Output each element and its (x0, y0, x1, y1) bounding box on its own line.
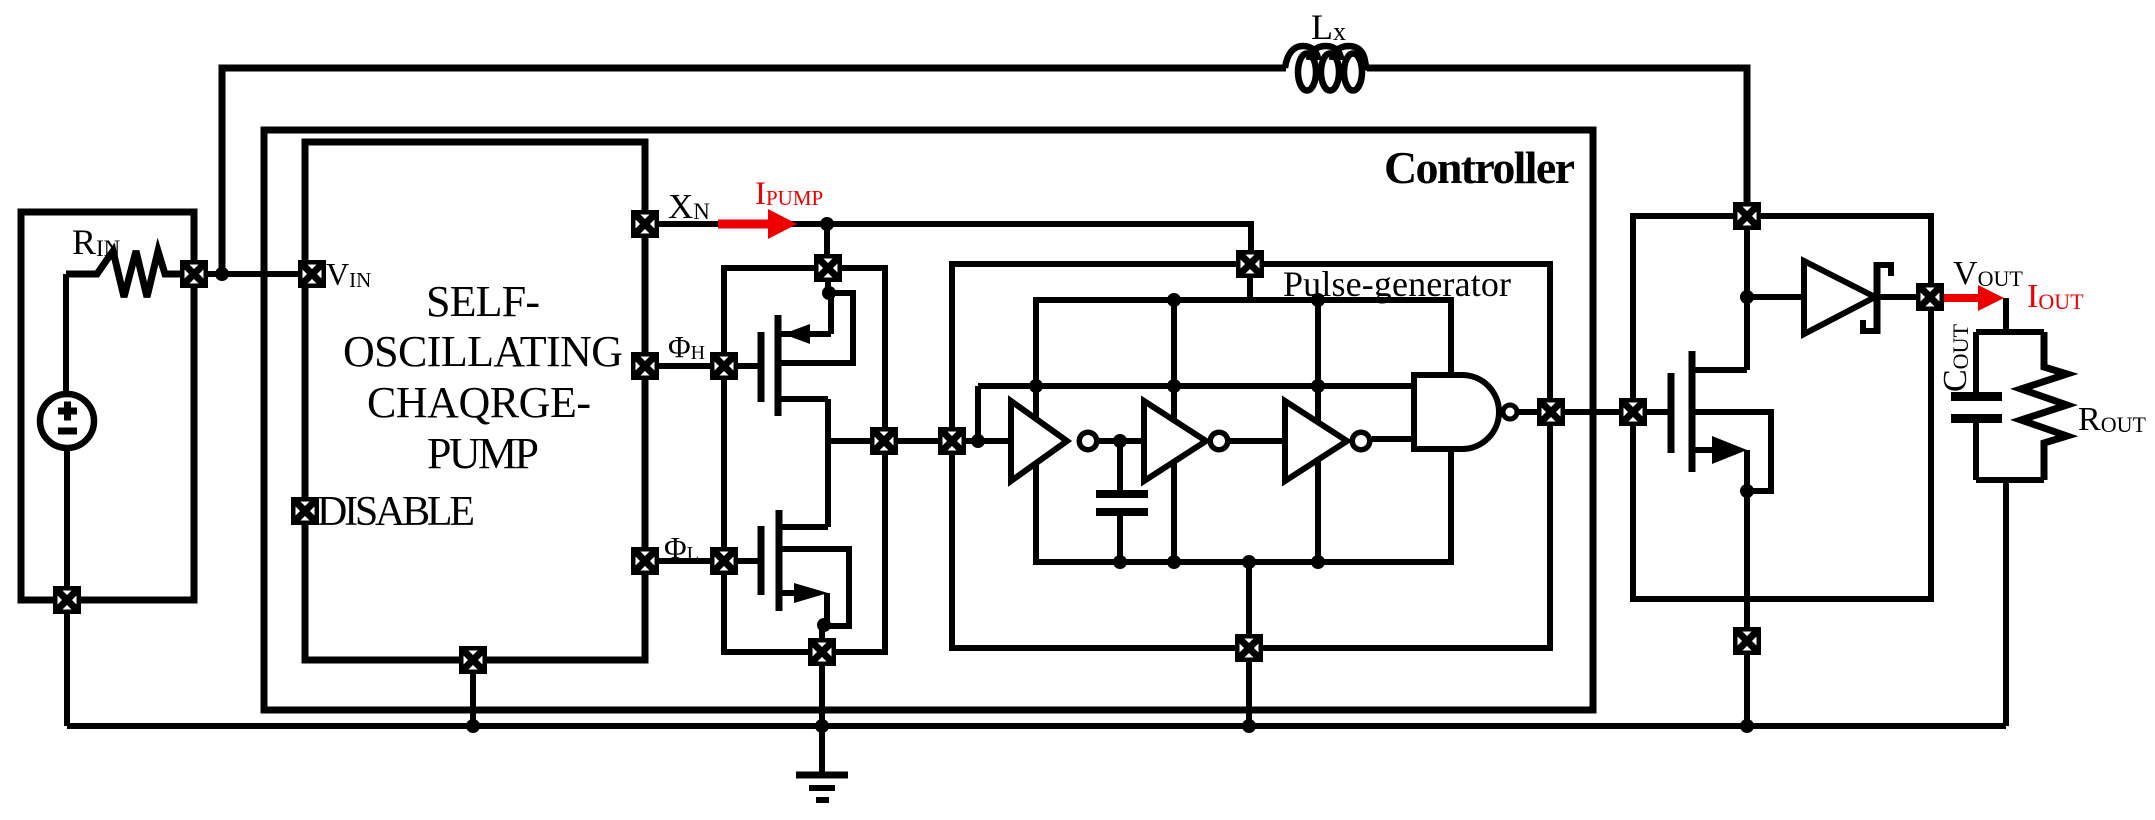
pad pulse gnd (1235, 634, 1263, 662)
voltage source V1 (40, 394, 94, 448)
inverter U3 (1285, 401, 1347, 481)
pad phiH a (631, 352, 659, 380)
wire: inverter chain (1099, 439, 1414, 441)
inductor Lx (1285, 46, 1369, 91)
pad driver out (870, 427, 898, 455)
pad Xn (631, 210, 659, 238)
svg-text:OSCILLATING: OSCILLATING (343, 327, 623, 376)
pulse-generator inner rail box (1036, 300, 1451, 562)
wire: phiH (645, 363, 724, 369)
pad Vin (298, 260, 326, 288)
pad driver gnd (808, 638, 836, 666)
pad source gnd (53, 586, 81, 614)
wire: top loop (222, 68, 1747, 274)
pad Vout (1916, 283, 1944, 311)
controller box (264, 130, 1593, 710)
svg-text:Controller: Controller (1384, 142, 1575, 193)
resistor Rin (66, 251, 181, 297)
wire: nand output (1519, 409, 1633, 415)
diode D1 (schottky) (1804, 261, 1875, 334)
wire: driver output to pulse input (828, 438, 952, 444)
wire: pulse bottom feed (1246, 562, 1252, 726)
pad pump gnd (459, 646, 487, 674)
svg-text:Pulse-generator: Pulse-generator (1283, 264, 1511, 304)
nand gate U4 (1414, 375, 1499, 449)
svg-text:PUMP: PUMP (427, 429, 539, 478)
wire: inner verticals (1174, 300, 1318, 562)
pad DISABLE (291, 497, 319, 525)
red arrow Iout (1944, 285, 2004, 311)
svg-text:DISABLE: DISABLE (317, 489, 475, 535)
wire: load bottom feed (2003, 480, 2009, 726)
capacitor Cout (1951, 332, 2002, 480)
gate-driver box (724, 268, 885, 652)
ground (796, 775, 848, 800)
source box (21, 212, 194, 600)
output-stage box (1633, 216, 1931, 599)
svg-text:SELF-: SELF- (426, 277, 540, 326)
wire: Vin row (194, 271, 312, 277)
resistor Rout (2021, 332, 2067, 480)
transistor M1 (driver PMOS) (724, 268, 853, 441)
pad phiL a (631, 547, 659, 575)
red arrow Ipump (718, 209, 797, 239)
inverter U2 (1144, 401, 1206, 481)
pad phiH b (710, 352, 738, 380)
pad driver top (814, 254, 842, 282)
wire: pump bottom to rail (470, 660, 476, 726)
wire: stage ground (1744, 491, 1750, 726)
svg-text:CHAQRGE-: CHAQRGE- (367, 378, 591, 427)
pad stage in (1619, 398, 1647, 426)
DOTS (junctions) (215, 217, 1754, 733)
pad pulse out (1537, 398, 1565, 426)
pad Rin out (180, 260, 208, 288)
wire: driver ground (819, 624, 825, 775)
pad stage top (1733, 202, 1761, 230)
wire: pulse top feed (1247, 264, 1253, 300)
pad pulse in (938, 427, 966, 455)
capacitor C1 (pulse gen) (1096, 441, 1148, 562)
wire: line B bypass (978, 383, 1414, 389)
load rails (1976, 298, 2044, 480)
pad stage gnd (1733, 627, 1761, 655)
wire: ground rail (67, 723, 2006, 729)
charge-pump box (305, 142, 645, 660)
inverter U1 (1011, 401, 1067, 481)
wire: phiL (645, 558, 724, 564)
pad pulse top (1236, 250, 1264, 278)
wire: source internals (66, 274, 67, 726)
transistor M2 (driver NMOS) (724, 441, 849, 626)
pad phiL b (710, 547, 738, 575)
pulse-generator box (952, 264, 1550, 648)
wire: Xn net (645, 224, 1251, 268)
wire: pulse input node (952, 386, 1011, 441)
transistor M3 (output NMOS) (1633, 216, 1771, 491)
